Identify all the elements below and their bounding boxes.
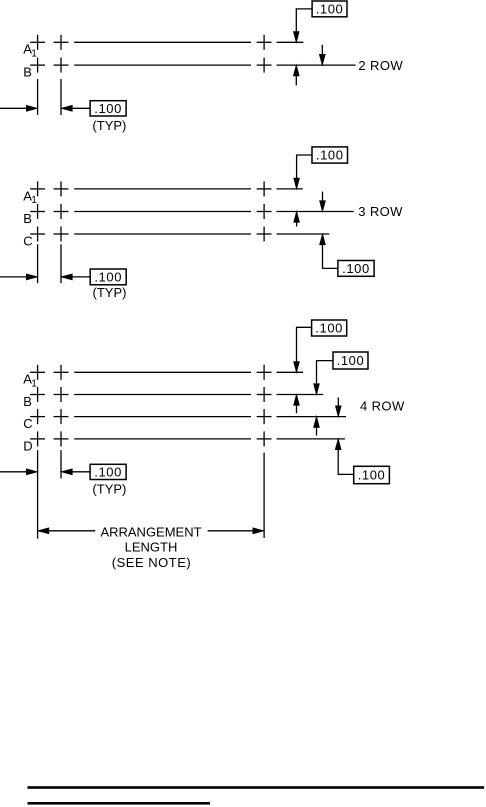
svg-text:C: C [23, 416, 32, 431]
svg-text:.100: .100 [94, 465, 122, 480]
svg-text:(TYP): (TYP) [92, 482, 126, 497]
svg-text:.100: .100 [342, 261, 370, 276]
svg-text:3 ROW: 3 ROW [358, 204, 403, 219]
svg-text:B: B [23, 211, 32, 226]
svg-text:.100: .100 [316, 2, 344, 17]
svg-text:(SEE NOTE): (SEE NOTE) [112, 555, 191, 570]
svg-text:.100: .100 [315, 321, 343, 336]
svg-text:.100: .100 [94, 101, 122, 116]
svg-text:B: B [23, 394, 32, 409]
svg-text:(TYP): (TYP) [93, 285, 127, 300]
svg-text:C: C [23, 233, 32, 248]
svg-text:B: B [23, 65, 32, 80]
svg-text:ARRANGEMENT: ARRANGEMENT [100, 525, 201, 540]
svg-text:LENGTH: LENGTH [125, 539, 178, 554]
svg-text:A1: A1 [23, 42, 37, 60]
svg-text:2 ROW: 2 ROW [358, 58, 403, 73]
svg-text:.100: .100 [316, 148, 344, 163]
svg-text:4 ROW: 4 ROW [360, 398, 405, 413]
svg-text:A1: A1 [23, 372, 37, 390]
svg-text:A1: A1 [23, 188, 37, 206]
svg-text:.100: .100 [358, 468, 386, 483]
svg-text:.100: .100 [337, 353, 365, 368]
svg-text:D: D [23, 438, 32, 453]
svg-text:(TYP): (TYP) [92, 118, 126, 133]
svg-text:.100: .100 [94, 270, 122, 285]
